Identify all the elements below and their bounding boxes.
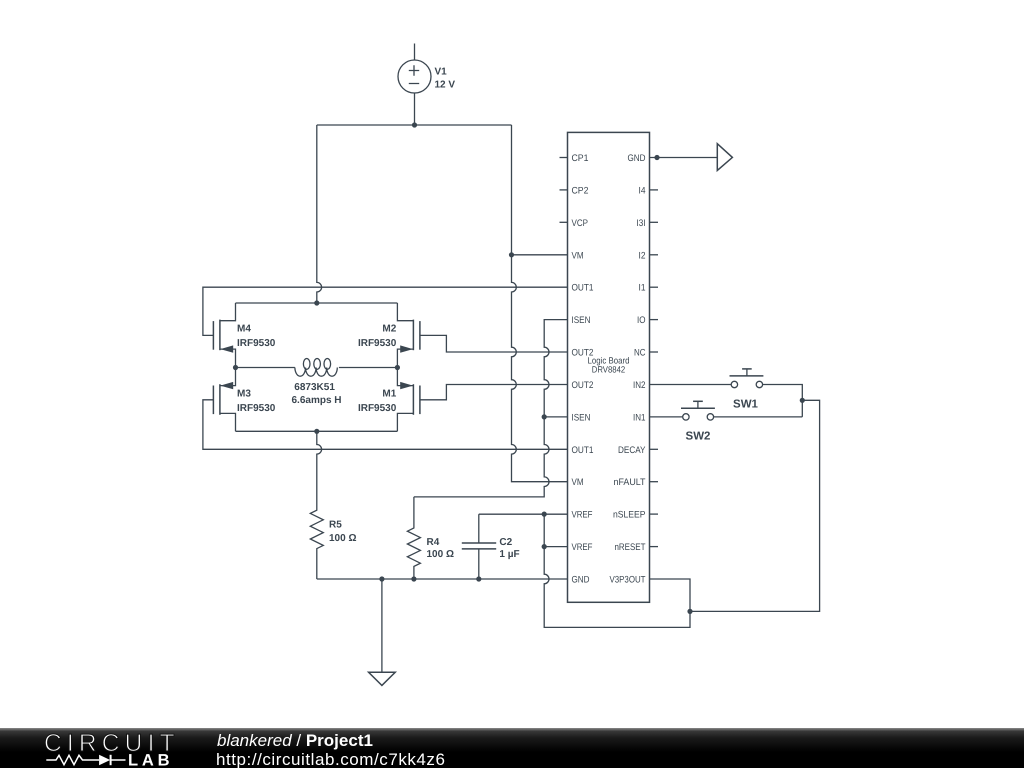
wire middle rail left <box>220 349 295 386</box>
wire ISEN2 pin <box>544 416 567 418</box>
output flag GND <box>717 144 732 171</box>
wire SW1 right <box>763 385 803 417</box>
svg-text:VM: VM <box>572 477 584 488</box>
svg-text:LAB: LAB <box>128 751 173 768</box>
svg-text:NC: NC <box>634 348 646 359</box>
node junction GND pin <box>654 155 659 160</box>
wire OUT1 bottom <box>203 400 568 450</box>
svg-text:I2: I2 <box>639 250 646 261</box>
pin IO <box>637 315 658 326</box>
wire M2 gate to OUT2 <box>420 335 568 352</box>
node junction ground branch <box>379 576 384 581</box>
node junction VREF2 <box>542 544 547 549</box>
wire VREF2 pin <box>544 546 567 548</box>
svg-text:VREF: VREF <box>572 510 593 521</box>
svg-text:GND: GND <box>572 575 590 586</box>
svg-text:GND: GND <box>628 153 646 164</box>
svg-text:100 Ω: 100 Ω <box>427 549 454 560</box>
wire middle rail right <box>339 349 414 386</box>
label M3 <box>237 389 276 414</box>
pin VCP <box>560 218 589 229</box>
ground <box>369 579 396 685</box>
svg-text:M1: M1 <box>382 389 396 400</box>
node junction bottom rail <box>314 429 319 434</box>
resistor R5 <box>310 431 323 579</box>
svg-text:DECAY: DECAY <box>618 445 646 456</box>
pin nSLEEP <box>613 510 658 521</box>
svg-text:VM: VM <box>572 250 584 261</box>
svg-text:DRV8842: DRV8842 <box>592 365 626 375</box>
wire M1 gate to OUT2b <box>420 385 568 400</box>
pin I3I <box>637 218 659 229</box>
wire ISEN rail to R4 <box>414 320 568 497</box>
transistor M3 <box>213 382 233 415</box>
label M2 <box>358 324 397 350</box>
svg-text:IRF9530: IRF9530 <box>237 403 276 414</box>
svg-text:V1: V1 <box>435 67 448 78</box>
svg-text:nSLEEP: nSLEEP <box>613 510 646 521</box>
svg-text:VCP: VCP <box>572 218 589 229</box>
transistor M1 <box>400 382 420 415</box>
svg-text:VREF: VREF <box>572 542 593 553</box>
node junction middle left <box>233 365 238 370</box>
svg-text:6873K51: 6873K51 <box>294 382 335 393</box>
wire H-bridge bottom rail <box>220 413 414 431</box>
logo resistor-diode glyph <box>46 755 99 764</box>
svg-text:R4: R4 <box>427 537 440 548</box>
svg-text:I4: I4 <box>639 185 646 196</box>
pin CP2 <box>560 185 589 196</box>
svg-text:IRF9530: IRF9530 <box>358 338 397 349</box>
svg-text:R5: R5 <box>329 520 342 531</box>
node junction at V1 bottom <box>412 122 417 127</box>
svg-text:IO: IO <box>637 315 646 326</box>
svg-text:6.6amps H: 6.6amps H <box>291 395 341 406</box>
svg-text:100 Ω: 100 Ω <box>329 533 356 544</box>
svg-text:OUT2: OUT2 <box>572 348 594 359</box>
wire VM pin <box>512 254 568 256</box>
wire GND flag <box>650 157 718 159</box>
node junction VREF <box>542 511 547 516</box>
pin I1 <box>639 283 659 294</box>
IC U1 DRV8842 <box>568 132 650 602</box>
wire VREF from C2 top <box>479 513 568 515</box>
svg-text:nRESET: nRESET <box>615 542 646 553</box>
label R4 value <box>427 537 454 560</box>
watermark title text <box>217 731 373 751</box>
label R5 value <box>329 520 356 544</box>
label inductor value <box>291 382 341 406</box>
svg-text:1 µF: 1 µF <box>499 549 519 560</box>
pin NC <box>634 348 658 359</box>
wire SW2 right <box>714 416 803 418</box>
svg-text:V3P3OUT: V3P3OUT <box>610 575 646 586</box>
inductor L1 coil <box>295 359 337 377</box>
wire IN1 to SW2 <box>650 416 683 418</box>
label C2 value <box>499 537 519 560</box>
label M1 <box>358 389 397 414</box>
capacitor C2 <box>462 514 496 579</box>
svg-text:M2: M2 <box>382 324 396 335</box>
wire IN2 to SW1 <box>650 384 732 386</box>
voltage source V1 <box>398 44 431 126</box>
switch SW1 <box>730 369 764 388</box>
transistor M2 <box>400 320 420 353</box>
wire top horizontal V1 to rails <box>317 124 512 126</box>
wire GND bottom <box>317 578 568 580</box>
label V1 value <box>435 67 456 91</box>
svg-text:ISEN: ISEN <box>572 412 591 423</box>
svg-text:IRF9530: IRF9530 <box>358 403 397 414</box>
wire VREF rail down and around to V3P3OUT <box>544 514 690 627</box>
watermark url text <box>216 750 445 770</box>
pin DECAY <box>618 445 658 456</box>
svg-text:M3: M3 <box>237 389 251 400</box>
pin nFAULT <box>614 477 659 488</box>
pin nRESET <box>615 542 659 553</box>
svg-text:nFAULT: nFAULT <box>614 477 646 488</box>
wire VM rail (with hops) <box>512 125 568 482</box>
svg-text:C2: C2 <box>499 537 512 548</box>
svg-text:SW2: SW2 <box>686 431 711 443</box>
node junction SW rail <box>800 398 805 403</box>
svg-text:IN1: IN1 <box>633 412 646 423</box>
node junction V3P3OUT <box>687 609 692 614</box>
pin CP1 <box>560 153 589 164</box>
node junction VM <box>509 252 514 257</box>
svg-text:SW1: SW1 <box>733 398 759 410</box>
svg-text:ISEN: ISEN <box>572 315 591 326</box>
svg-text:IN2: IN2 <box>633 380 646 391</box>
svg-text:OUT2: OUT2 <box>572 380 594 391</box>
svg-text:OUT1: OUT1 <box>572 283 594 294</box>
node junction middle right <box>395 365 400 370</box>
resistor R4 <box>407 497 420 579</box>
svg-text:I3I: I3I <box>637 218 646 229</box>
pin I2 <box>639 250 659 261</box>
svg-text:12 V: 12 V <box>435 80 456 91</box>
wire switches to V3P3OUT rail <box>690 400 820 611</box>
transistor M4 <box>213 320 233 353</box>
pin I4 <box>639 185 659 196</box>
wire left drop to H-bridge top rail <box>317 125 322 303</box>
label IC name <box>588 356 630 375</box>
switch SW2 <box>681 401 715 420</box>
node junction R4 bottom <box>411 576 416 581</box>
svg-text:CP2: CP2 <box>572 185 589 196</box>
svg-text:IRF9530: IRF9530 <box>237 338 276 349</box>
svg-text:CP1: CP1 <box>572 153 589 164</box>
wire H-bridge top rail <box>220 303 414 321</box>
svg-text:M4: M4 <box>237 324 251 335</box>
node junction top rail <box>314 300 319 305</box>
node junction ISEN2 <box>542 414 547 419</box>
svg-text:I1: I1 <box>639 283 646 294</box>
label M4 <box>237 324 276 350</box>
node junction C2 bottom <box>476 576 481 581</box>
wire OUT1 top <box>203 287 568 335</box>
svg-text:OUT1: OUT1 <box>572 445 594 456</box>
